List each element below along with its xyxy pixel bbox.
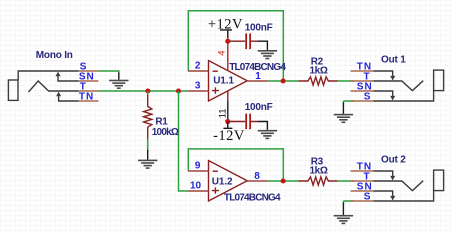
wire C1 to ground [258,41,268,50]
pin SN of J1 [79,80,99,82]
arrow J2 TN switch contact [390,76,395,81]
arrow J1 SN switch contact [56,72,61,77]
svg-text:S: S [364,92,372,103]
pin S of J3 [351,200,374,202]
svg-text:1: 1 [255,71,261,82]
wire J2 TN contact [374,71,393,77]
svg-text:10: 10 [190,181,202,192]
svg-text:2: 2 [195,61,201,72]
pin SN of J2 [351,90,374,92]
pin S of J1 [79,70,99,72]
pin 3 of U1.1 [188,90,209,92]
resistor R3 [299,177,338,185]
resistor R1 [144,95,152,139]
svg-text:TN: TN [79,92,94,103]
arrow J3 TN switch contact [390,176,395,181]
pin TN of J2 [351,70,374,72]
wire J2 SN contact [374,91,393,97]
wire R2 to Out1 T pin [338,80,354,82]
svg-text:Out 2: Out 2 [381,155,406,166]
wire J3 tip spring [374,181,424,191]
capacitor C1 plates [246,33,250,49]
capacitor C2 leads [230,121,258,123]
wire J2 tip spring [374,81,424,91]
svg-text:S: S [364,192,372,203]
wire S net to ground [98,71,118,74]
connector J3 body [434,170,444,191]
pin SN of J3 [351,190,374,192]
op-amp U1.1 minus input mark [213,70,218,72]
connector J2 body [434,70,444,91]
wire U1.1 output net [268,80,298,82]
wire J1 tip spring to T pin [29,81,79,92]
svg-text:4: 4 [216,51,227,56]
capacitor C2 plates [246,114,250,130]
junction node at R1 top [145,89,150,94]
pin 9 of U1.2 [188,170,209,172]
op-amp U1.2 triangle [209,161,248,202]
pin TN of J1 [79,100,99,102]
connector J1 "Mono In" jack body [8,80,18,100]
svg-text:Mono In: Mono In [36,50,73,61]
ground GND3 at C1 [258,50,277,59]
svg-text:U1.2: U1.2 [212,176,233,187]
pin T of J3 [351,180,374,182]
op-amp U1.1 plus input mark [212,87,219,93]
wire J1 SN contact [58,75,79,81]
wire input T net [98,90,188,92]
svg-text:TL074BCNG4: TL074BCNG4 [224,193,281,204]
svg-text:11: 11 [218,108,229,118]
wire feedback loop U1.2 [188,149,283,181]
pin 2 of U1.1 [188,70,209,72]
power -12V supply symbol [225,119,230,124]
pin TN of J3 [351,170,374,172]
svg-text:1kΩ: 1kΩ [310,166,328,177]
wire J3 sleeve [374,191,434,201]
op-amp U1.1 triangle [209,61,248,102]
op-amp U1.2 minus input mark [213,170,218,172]
pin 8 of U1.2 output [247,180,268,182]
ground GND2 under R1 [147,150,149,160]
pin 10 of U1.2 [188,190,209,192]
svg-text:9: 9 [195,161,201,172]
arrow J3 SN switch contact [390,196,395,201]
wire J3 SN contact [374,191,393,197]
pin T of J2 [351,80,374,82]
wire Out2 ground net [343,201,354,204]
wire J3 TN contact [374,171,393,177]
wire J1 TN contact [59,95,79,101]
pin S of J2 [351,100,374,102]
svg-text:-12V: -12V [213,128,245,144]
svg-text:8: 8 [254,171,260,182]
ground GND4 at C2 [258,130,277,139]
svg-text:100nF: 100nF [245,23,273,34]
wire T net down to U1.2 pin 10 [179,91,189,191]
wire R1 top stub [147,91,149,95]
junction node to U1.2 branch [176,89,181,94]
wire C2 to ground [258,122,268,130]
pin 1 of U1.1 output [247,80,268,82]
ground GND6 at Out2 [342,203,344,215]
wire R1 bottom to ground [147,139,149,150]
ground GND5 at Out1 [342,103,344,114]
arrow J2 SN switch contact [390,96,395,101]
pin 11 of U1.1 (V-) [227,91,229,101]
svg-text:Out 1: Out 1 [381,55,406,66]
arrow J1 TN switch contact [56,92,61,97]
resistor R2 [299,77,338,85]
junction node U1.1 output [281,79,286,84]
ground GND1 [118,73,120,80]
svg-text:100kΩ: 100kΩ [152,127,179,138]
svg-text:100nF: 100nF [245,102,273,113]
svg-text:1kΩ: 1kΩ [310,66,328,77]
pin 4 of U1.1 (V+) [227,41,229,70]
wire J1 sleeve to S pin [18,71,78,80]
capacitor C1 leads [230,40,258,42]
wire J2 sleeve [374,91,434,101]
wire U1.2 output net [268,180,298,182]
junction node U1.2 output [281,179,286,184]
op-amp U1.2 plus input mark [212,187,219,193]
wire R3 to Out2 T pin [338,180,354,182]
svg-text:U1.1: U1.1 [213,76,234,87]
wire Out1 ground net [343,101,354,104]
junction node +12V [225,39,230,44]
svg-text:3: 3 [195,81,201,92]
wire feedback loop U1.1 [188,11,283,81]
pin T of J1 [79,90,99,92]
